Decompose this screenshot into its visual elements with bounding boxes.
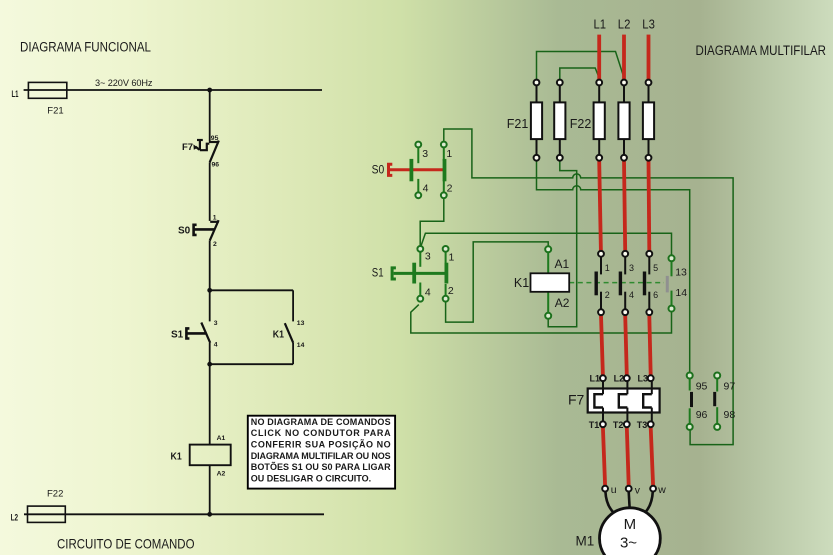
svg-text:1: 1 — [213, 215, 217, 222]
svg-text:M1: M1 — [576, 534, 595, 549]
svg-text:F22: F22 — [570, 117, 592, 131]
svg-text:L3: L3 — [642, 16, 655, 31]
svg-text:L2: L2 — [11, 513, 19, 524]
svg-text:T3: T3 — [637, 420, 648, 430]
svg-text:4: 4 — [423, 183, 429, 195]
svg-text:1: 1 — [605, 263, 610, 273]
svg-text:3: 3 — [214, 320, 218, 327]
svg-text:3~ 220V 60Hz: 3~ 220V 60Hz — [95, 78, 153, 88]
svg-text:1: 1 — [446, 148, 452, 160]
svg-text:w: w — [657, 484, 666, 496]
svg-text:2: 2 — [448, 285, 454, 297]
svg-text:2: 2 — [213, 241, 217, 248]
svg-text:3~: 3~ — [620, 535, 637, 552]
svg-text:S1: S1 — [171, 329, 184, 340]
svg-text:F7: F7 — [568, 392, 585, 408]
svg-text:2: 2 — [447, 183, 453, 195]
svg-text:97: 97 — [724, 381, 736, 393]
svg-text:A2: A2 — [217, 471, 226, 478]
svg-text:L2: L2 — [614, 374, 625, 384]
svg-text:S1: S1 — [372, 266, 384, 280]
svg-text:1: 1 — [449, 251, 455, 263]
svg-text:S0: S0 — [178, 225, 191, 236]
svg-text:DIAGRAMA FUNCIONAL: DIAGRAMA FUNCIONAL — [20, 40, 151, 55]
svg-text:v: v — [635, 485, 641, 497]
svg-text:u: u — [611, 484, 617, 496]
svg-text:L3: L3 — [638, 374, 649, 384]
svg-text:6: 6 — [653, 290, 658, 300]
svg-text:A2: A2 — [555, 296, 570, 310]
svg-text:5: 5 — [653, 263, 658, 273]
svg-text:A1: A1 — [217, 435, 226, 442]
svg-text:F7: F7 — [182, 142, 193, 153]
svg-text:F21: F21 — [507, 117, 529, 131]
svg-text:4: 4 — [629, 290, 634, 300]
svg-text:L2: L2 — [618, 16, 631, 31]
svg-text:4: 4 — [214, 341, 218, 348]
svg-text:98: 98 — [724, 409, 736, 421]
svg-text:3: 3 — [422, 148, 428, 160]
svg-text:14: 14 — [297, 342, 305, 349]
svg-text:F21: F21 — [47, 106, 63, 117]
svg-text:3: 3 — [425, 251, 431, 263]
svg-text:L1: L1 — [12, 89, 19, 100]
svg-text:13: 13 — [675, 267, 687, 279]
svg-text:M: M — [624, 516, 637, 533]
svg-text:T1: T1 — [589, 420, 600, 430]
svg-text:K1: K1 — [514, 276, 529, 290]
svg-text:A1: A1 — [555, 257, 570, 271]
svg-text:DIAGRAMA MULTIFILAR: DIAGRAMA MULTIFILAR — [696, 43, 827, 58]
svg-text:OU DESLIGAR O CIRCUITO.: OU DESLIGAR O CIRCUITO. — [251, 473, 371, 483]
svg-text:T2: T2 — [613, 420, 624, 430]
svg-text:3: 3 — [629, 263, 634, 273]
svg-text:CLICK NO CONDUTOR PARA: CLICK NO CONDUTOR PARA — [251, 428, 391, 438]
svg-text:L1: L1 — [590, 374, 601, 384]
svg-text:4: 4 — [425, 286, 431, 298]
svg-text:L1: L1 — [594, 16, 607, 31]
svg-text:CONFERIR SUA POSIÇÃO NO: CONFERIR SUA POSIÇÃO NO — [251, 440, 391, 450]
svg-text:13: 13 — [297, 320, 305, 327]
svg-text:K1: K1 — [171, 451, 183, 462]
svg-text:DIAGRAMA MULTIFILAR OU NOS: DIAGRAMA MULTIFILAR OU NOS — [251, 451, 391, 461]
svg-text:BOTÕES S1 OU S0 PARA LIGAR: BOTÕES S1 OU S0 PARA LIGAR — [251, 462, 391, 472]
svg-text:14: 14 — [675, 287, 687, 299]
svg-text:CIRCUITO DE COMANDO: CIRCUITO DE COMANDO — [57, 537, 195, 552]
svg-text:NO DIAGRAMA DE COMANDOS: NO DIAGRAMA DE COMANDOS — [251, 417, 391, 427]
svg-text:96: 96 — [696, 409, 708, 421]
svg-text:2: 2 — [605, 290, 610, 300]
svg-text:95: 95 — [211, 135, 219, 142]
svg-text:96: 96 — [212, 161, 220, 168]
svg-text:K1: K1 — [273, 329, 285, 340]
svg-text:S0: S0 — [372, 162, 385, 176]
svg-text:95: 95 — [696, 381, 708, 393]
svg-text:F22: F22 — [47, 489, 63, 500]
